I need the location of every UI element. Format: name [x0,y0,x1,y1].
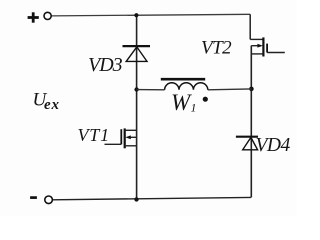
node right mid junction [249,87,254,92]
+ input terminal circle [44,12,51,19]
polarity dot of W1 [203,97,208,102]
wire VT2 source drop [250,46,252,89]
wire VT2 drain drop [249,14,251,39]
svg-text:VD4: VD4 [256,135,291,156]
- terminal symbol [30,196,37,199]
svg-text:VT2: VT2 [201,38,232,59]
transistor VT1 [105,128,137,148]
svg-text:W: W [171,90,192,115]
wire VD3/VT1 left column [136,15,138,199]
node left mid junction [134,87,138,91]
+ terminal symbol [28,12,39,22]
- input terminal circle [45,196,53,204]
svg-text:ex: ex [44,97,60,113]
svg-text:VD3: VD3 [88,54,123,76]
label W1 [171,90,197,115]
inductor W1 core bar [161,78,205,81]
wire bottom rail (- to VD4 corner) [52,197,251,199]
wire VD4 right column [250,89,252,198]
node bottom junction [134,197,138,201]
diode VD4 [236,137,258,150]
transistor VT2 [250,37,285,56]
label Uex input voltage [33,90,60,113]
inductor W1 [137,83,252,90]
wire top rail (+ to VT2 drain corner) [51,14,250,16]
svg-text:VT1: VT1 [78,125,110,145]
diode VD3 [123,46,151,61]
node top junction [134,13,138,17]
svg-text:1: 1 [191,101,197,115]
